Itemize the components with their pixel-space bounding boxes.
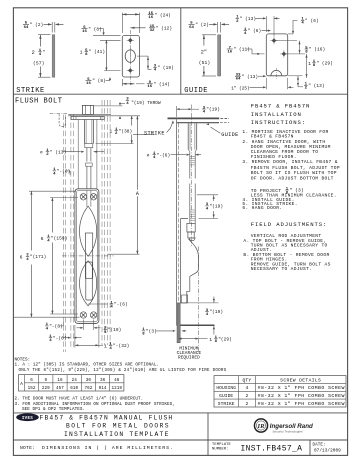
svg-text:DATE:: DATE:: [313, 444, 326, 448]
svg-text:TEMPLATE: TEMPLATE: [212, 443, 232, 447]
svg-text:SCREW DETAILS: SCREW DETAILS: [280, 378, 321, 384]
svg-text:" (13): " (13): [240, 17, 256, 22]
flush bolt face plate inner: [77, 190, 98, 321]
svg-text:"-(32): "-(32): [113, 344, 129, 349]
svg-text:30: 30: [86, 378, 92, 383]
svg-text:"-(6): "-(6): [114, 303, 128, 308]
connecting rod lower: [86, 166, 88, 189]
side view top dim 3/4"-(19): [176, 106, 178, 117]
svg-text:#8-32 X 1" FPH COMBO SCREW: #8-32 X 1" FPH COMBO SCREW: [258, 385, 345, 391]
vertical divider title block left cell: [207, 413, 209, 456]
svg-text:" (6): " (6): [305, 19, 319, 24]
svg-text:" (29): " (29): [316, 61, 332, 66]
svg-text:16: 16: [227, 50, 232, 54]
svg-text:1" (25): 1" (25): [231, 87, 249, 92]
svg-text:FB457 & FB457N: FB457 & FB457N: [251, 134, 294, 140]
svg-text:" (2): " (2): [195, 23, 209, 28]
svg-text:"-(6): "-(6): [53, 336, 67, 341]
hidden strike outline above door top: [50, 113, 68, 115]
guide height dimension 2" (51): [202, 34, 216, 36]
side view housing profile: [181, 219, 199, 303]
strike plate screw offset dimension 15/32" (12): [130, 27, 145, 29]
bolt housing tube front view: [83, 120, 85, 144]
svg-text:6: 6: [20, 254, 23, 260]
size table A: [19, 375, 124, 391]
guide plate front view: [266, 34, 287, 76]
strike plate top screw hole: [128, 38, 133, 43]
svg-text:FINISHED FLOOR.: FINISHED FLOOR.: [251, 154, 297, 160]
rod diameter dim 1/2" (13): [40, 149, 104, 157]
Ingersoll Rand logo: [254, 419, 313, 434]
screw details table: [214, 376, 346, 407]
guide plate dim 5/8" (16) right: [284, 53, 305, 55]
svg-text:1219: 1219: [112, 386, 123, 391]
horizontal divider above title block: [13, 412, 347, 414]
face plate screw top right: [90, 194, 96, 200]
svg-text:152: 152: [28, 386, 36, 391]
face plate upper slot: [80, 206, 97, 256]
svg-text:"(3): "(3): [146, 330, 157, 335]
svg-text:INSTRUCTIONS:: INSTRUCTIONS:: [251, 119, 306, 126]
svg-text:STRIKE: STRIKE: [16, 87, 45, 95]
bolt body in slot: [85, 233, 92, 278]
svg-text:2: 2: [245, 401, 248, 407]
svg-text:9: 9: [44, 378, 47, 383]
svg-text:" (24): " (24): [155, 13, 171, 18]
svg-text:1: 1: [209, 337, 212, 343]
svg-text:INST.FB457_A: INST.FB457_A: [241, 444, 303, 453]
side view door centerline: [198, 247, 200, 353]
housing dim 1 1/2" (38): [96, 143, 134, 145]
svg-text:" (19): " (19): [157, 66, 173, 71]
svg-text:FB457N FLUSH BOLT, ADJUST TOP: FB457N FLUSH BOLT, ADJUST TOP: [251, 165, 340, 171]
svg-text:64: 64: [189, 26, 194, 30]
svg-text:GUIDE: GUIDE: [219, 393, 233, 399]
bottom bolt end in slot: [86, 262, 93, 300]
dim 1 1/4"-(32) plate width: [74, 325, 76, 348]
svg-text:6: 6: [30, 378, 33, 383]
svg-text:762: 762: [84, 386, 92, 391]
dim 6 1/4" (159) screw spacing: [50, 197, 78, 199]
svg-text:" (8): " (8): [88, 27, 102, 32]
guide plate dim 1 1/8" (29) right: [306, 54, 308, 78]
svg-text:FB457 & FB457N MANUAL FLUSH: FB457 & FB457N MANUAL FLUSH: [40, 414, 174, 421]
svg-text:32: 32: [150, 29, 155, 33]
svg-text:"(19): "(19): [108, 328, 122, 333]
installation instructions list: [242, 129, 340, 211]
svg-text:BOLT SO IT IS FLUSH WITH TOP: BOLT SO IT IS FLUSH WITH TOP: [251, 170, 337, 176]
top strike plate front view: [71, 117, 104, 120]
svg-text:6: 6: [41, 236, 44, 242]
strike height dimension 2 1/4" (57): [38, 34, 51, 36]
svg-text:STRIKE: STRIKE: [218, 401, 235, 407]
side view guide plate under door top: [177, 122, 219, 124]
svg-text:" (3): " (3): [289, 188, 303, 194]
svg-text:"(171): "(171): [30, 255, 46, 260]
svg-text:STRIKE: STRIKE: [144, 131, 165, 137]
svg-text:HOUSING: HOUSING: [216, 385, 236, 391]
svg-text:(57): (57): [33, 61, 44, 67]
guide side view plate bar: [218, 35, 221, 76]
svg-text:GUIDE: GUIDE: [184, 87, 208, 95]
flush bolt face plate outer: [75, 189, 99, 324]
svg-text:" (41): " (41): [89, 50, 105, 55]
svg-text:24: 24: [72, 378, 78, 383]
svg-text:" (8): " (8): [92, 79, 106, 84]
side view coupling nut: [187, 223, 195, 232]
svg-text:FIELD ADJUSTMENTS:: FIELD ADJUSTMENTS:: [251, 221, 328, 228]
svg-text:1: 1: [80, 50, 83, 56]
IVES logo badge: [16, 413, 39, 421]
side view bottom dim 3/4"-(19): [188, 302, 219, 304]
clearance dim 1 1/8"-(29): [179, 338, 199, 340]
strike plate bottom screw hole: [128, 68, 133, 73]
svg-text:" (16): " (16): [309, 48, 325, 53]
svg-text:" (13): " (13): [242, 75, 258, 80]
svg-text:07/13/2009: 07/13/2009: [314, 448, 341, 453]
face plate screw bottom left: [80, 312, 86, 318]
svg-text:1: 1: [104, 343, 107, 349]
svg-text:16: 16: [147, 85, 152, 89]
side view upper rod with threads: [189, 152, 191, 179]
svg-text:IR: IR: [257, 423, 266, 430]
door top edge lines: [68, 113, 111, 115]
face plate lower slot: [80, 261, 97, 306]
svg-text:FLUSH BOLT: FLUSH BOLT: [15, 98, 63, 106]
mortise pocket lines: [77, 120, 79, 189]
svg-text:4: 4: [245, 385, 248, 391]
dim 3/4"-(19) screw gauge: [82, 320, 84, 331]
svg-text:16: 16: [148, 16, 153, 20]
svg-text:2: 2: [32, 50, 35, 56]
front view door edge dash-dot lines right outer: [107, 100, 109, 345]
svg-text:457: 457: [56, 386, 64, 391]
svg-text:A: A: [20, 381, 23, 387]
strike plate dim 3/4" (19) right: [137, 55, 148, 57]
svg-text:610: 610: [70, 386, 78, 391]
svg-text:1. A : 12" (305) IS STANDARD,: 1. A : 12" (305) IS STANDARD, OTHER SIZE…: [15, 363, 160, 368]
rod break coupling: [86, 163, 93, 166]
svg-text:18: 18: [57, 378, 63, 383]
svg-text:1: 1: [109, 129, 112, 135]
svg-text:" (13): " (13): [308, 84, 324, 89]
side view mid dim 3/4"-(19) upper: [197, 194, 218, 196]
svg-text:Security Technologies: Security Technologies: [273, 430, 304, 434]
svg-text:BOLT FOR METAL DOORS: BOLT FOR METAL DOORS: [66, 423, 170, 430]
svg-text:" (6): " (6): [248, 29, 262, 34]
svg-text:3. REMOVE DOOR, INSTALL FB457: 3. REMOVE DOOR, INSTALL FB457 &: [242, 159, 337, 165]
front view door edge dash-dot lines left outer: [62, 115, 64, 353]
strike plate bolt opening: [125, 50, 135, 63]
guide plate dim 1/2" (13) bottom right: [288, 75, 303, 77]
svg-text:ONLY THE 6"(152), 9"(229), 12": ONLY THE 6"(152), 9"(229), 12"(305) & 24…: [19, 368, 227, 373]
svg-text:" (12): " (12): [156, 26, 172, 31]
side view projected bottom bolt: [177, 303, 180, 343]
svg-text:IVES: IVES: [22, 417, 33, 421]
svg-text:" (14): " (14): [154, 82, 170, 87]
svg-text:DIMENSIONS IN ( ) ARE MILLIMET: DIMENSIONS IN ( ) ARE MILLIMETERS.: [42, 445, 174, 451]
svg-text:2. THE DOOR MUST HAVE AT LEAST: 2. THE DOOR MUST HAVE AT LEAST 1/4" (6) …: [15, 396, 144, 401]
guide plate rod notch: [271, 70, 282, 75]
side view rod centerline: [191, 105, 193, 247]
strike plate width dimension 15/16" (24): [121, 13, 123, 33]
guide plate lower screw hole: [282, 52, 287, 57]
connecting rod upper: [86, 148, 88, 162]
horizontal divider above note row: [13, 439, 347, 441]
svg-text:QTY: QTY: [243, 378, 252, 384]
strike plate top edge extension lines: [93, 34, 121, 36]
face plate screw top left: [80, 194, 86, 200]
svg-text:"(29): "(29): [218, 337, 232, 342]
svg-text:36: 36: [100, 378, 106, 383]
front view door edge dash-dot lines left inner: [70, 115, 72, 349]
strike plate dim 1 5/8" (41): [105, 40, 107, 70]
svg-text:"-(6): "-(6): [49, 325, 63, 330]
svg-text:" (13): " (13): [50, 150, 66, 155]
svg-text:A: A: [136, 191, 139, 197]
svg-text:"(159): "(159): [51, 237, 67, 242]
side view housing foot: [182, 295, 188, 303]
svg-text:INSTALLATION TEMPLATE: INSTALLATION TEMPLATE: [64, 431, 170, 438]
svg-text:REQUIRED: REQUIRED: [178, 355, 200, 360]
rod through plate top: [86, 190, 88, 206]
svg-text:"(19) THROW: "(19) THROW: [131, 101, 161, 106]
svg-text:16: 16: [86, 82, 91, 86]
dim 6 3/4" (171) plate length: [29, 190, 76, 192]
svg-text:2: 2: [245, 393, 248, 399]
svg-text:TO PROJECT: TO PROJECT: [251, 188, 282, 194]
svg-text:48: 48: [114, 378, 120, 383]
strike side view plate bar: [52, 35, 55, 77]
svg-text:OF DOOR. ADJUST BOTTOM BOLT: OF DOOR. ADJUST BOTTOM BOLT: [251, 176, 334, 182]
strike plate vertical centerline: [129, 30, 131, 83]
svg-text:"-(6): "-(6): [57, 170, 71, 175]
svg-text:"(19): "(19): [206, 108, 220, 113]
svg-text:2": 2": [201, 50, 207, 56]
svg-text:#8-32 X 1" FPH COMBO SCREW: #8-32 X 1" FPH COMBO SCREW: [258, 401, 345, 407]
svg-text:64: 64: [24, 26, 29, 30]
svg-text:1: 1: [308, 61, 311, 67]
side view top bolt: [187, 123, 189, 149]
svg-text:6. HANG DOOR.: 6. HANG DOOR.: [242, 205, 282, 211]
svg-text:"(19): "(19): [209, 205, 223, 210]
svg-text:NOTE:: NOTE:: [20, 445, 35, 451]
front view door edge dash-dot lines right inner: [101, 100, 103, 345]
plate horizontal centerline: [62, 255, 114, 257]
strike plate front view: [122, 35, 139, 77]
side view strike plate at door top: [168, 117, 220, 119]
svg-text:914: 914: [99, 386, 107, 391]
svg-text:NECESSARY TO ADJUST.: NECESSARY TO ADJUST.: [251, 266, 313, 272]
svg-text:INSTALLATION: INSTALLATION: [251, 111, 302, 118]
svg-text:FB457 & FB457N: FB457 & FB457N: [251, 103, 311, 110]
svg-text:"(38): "(38): [119, 129, 133, 134]
svg-text:16: 16: [82, 30, 87, 34]
svg-text:": ": [42, 50, 45, 55]
field adjustments list: [243, 233, 330, 272]
horizontal divider below strike/guide sections: [13, 93, 347, 95]
svg-text:#8-32 X 1" FPH COMBO SCREW: #8-32 X 1" FPH COMBO SCREW: [258, 393, 345, 399]
guide plate upper screw hole: [272, 38, 277, 43]
guide plate dim 1/4" (6) right: [274, 40, 297, 42]
svg-text:"(19): "(19): [209, 310, 223, 315]
dim 1/4"-(6) slot to screw: [88, 303, 99, 305]
svg-text:229: 229: [42, 386, 50, 391]
svg-text:(51): (51): [199, 60, 210, 66]
svg-text:GUIDE: GUIDE: [221, 132, 238, 138]
face plate screw bottom right: [90, 312, 96, 318]
side view door bottom edge: [177, 324, 215, 326]
svg-text:SEE DP1 & DP2 TEMPLATES.: SEE DP1 & DP2 TEMPLATES.: [22, 407, 85, 412]
vertical divider date cell: [309, 440, 311, 455]
rod adjusting nut: [85, 144, 93, 148]
svg-text:"-(6): "-(6): [157, 153, 171, 158]
svg-text:" (2): " (2): [30, 23, 44, 28]
svg-text:64: 64: [236, 78, 241, 82]
side view bottom bolt tip: [188, 232, 194, 238]
strike plate dim 5/16" (8) bottom: [104, 70, 121, 72]
side view housing top line ext: [198, 218, 218, 220]
strike plate dim 9/16" (14) bottom: [121, 79, 123, 86]
svg-text:" (11): " (11): [234, 48, 250, 53]
side view door face lines: [176, 119, 178, 325]
side view lower rod with threads: [189, 184, 191, 224]
svg-text:NUMBER:: NUMBER:: [212, 448, 229, 452]
dim A rod length: [133, 134, 155, 136]
top bolt head projecting above door: [82, 105, 93, 114]
vertical divider between strike and guide sections: [180, 8, 182, 94]
